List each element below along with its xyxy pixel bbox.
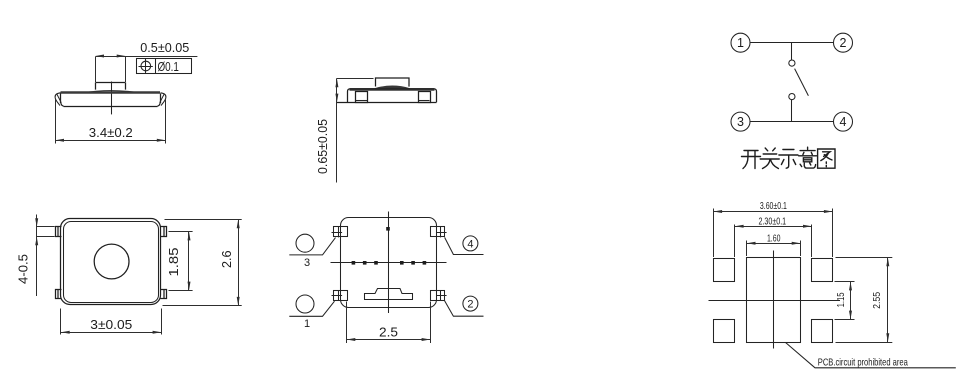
svg-text:2.55: 2.55 <box>871 292 883 309</box>
body top flange (thick) <box>350 88 435 90</box>
contact top <box>789 60 795 66</box>
svg-text:3.60±0.1: 3.60±0.1 <box>760 201 787 212</box>
switch body outline <box>61 94 161 107</box>
dimension line 1.15 <box>849 282 852 320</box>
body outline (end view) <box>337 89 437 103</box>
leader pin 3 <box>289 238 335 255</box>
svg-text:4: 4 <box>467 238 473 250</box>
dimension 4-0.5 text <box>17 254 31 284</box>
leader pin 2 <box>445 301 484 316</box>
terminal tab top-left <box>56 227 62 237</box>
dimension line 2.6 <box>237 220 240 306</box>
dimension line 1.85 <box>188 232 191 291</box>
dimension line 2.5 <box>347 338 431 341</box>
pin 2 circle <box>463 296 478 311</box>
svg-text:Ø0.1: Ø0.1 <box>157 60 179 74</box>
dome (end view) <box>375 86 411 89</box>
dimension line 3.4 <box>55 139 165 142</box>
extension lines 3.4 <box>56 99 166 144</box>
extension lines 2.5 <box>347 302 431 344</box>
extension lines 0.5 <box>96 57 126 83</box>
terminal tab top-right <box>161 227 167 237</box>
svg-text:1.15: 1.15 <box>835 292 847 307</box>
dimension line 1.60 <box>747 242 801 245</box>
cover inner outline (top view) <box>64 222 159 303</box>
pin 2 circle <box>834 33 853 52</box>
pin 4 circle <box>463 236 478 251</box>
svg-text:PCB.circuit prohibited area: PCB.circuit prohibited area <box>818 357 908 369</box>
dimension 0.65±0.05 text <box>316 119 330 174</box>
body outer outline (top view) <box>61 219 161 305</box>
terminal pad top-right <box>431 227 447 238</box>
svg-text:0.5±0.05: 0.5±0.05 <box>140 41 189 55</box>
pad top-right <box>812 259 833 282</box>
switch lever <box>795 69 809 96</box>
extension lines 2.30 <box>735 225 812 258</box>
dimension 0.5±0.05 text <box>140 41 189 55</box>
terminal right (end view) <box>419 92 431 103</box>
pin 4 circle <box>834 112 853 131</box>
dimension line 2.55 <box>886 258 889 343</box>
pad bottom-right <box>812 320 833 343</box>
left bent terminal hook <box>55 93 61 106</box>
body outline (bottom view) <box>341 218 437 308</box>
extension lines 3.60 <box>714 209 833 258</box>
dimension line 0.5 <box>95 55 197 58</box>
pin 3 circle <box>296 234 314 252</box>
dimension line 3±0.05 <box>61 331 162 334</box>
dimension 3±0.05 text <box>90 318 132 332</box>
extension lines 3±0.05 <box>61 309 162 335</box>
terminal tab bottom-left <box>56 290 62 299</box>
svg-text:2: 2 <box>840 36 847 50</box>
center line horizontal <box>331 262 447 264</box>
extension lines 2.6 <box>163 220 242 306</box>
button circle <box>94 244 129 279</box>
dimension 1.60 text <box>767 233 781 244</box>
dimension 2.30±0.1 text <box>758 216 786 227</box>
dimension 2.5 text <box>379 326 398 340</box>
pin 3 label <box>304 257 310 269</box>
pcb center line vertical <box>773 251 775 349</box>
wire bottom 3-4 <box>751 121 834 123</box>
svg-text:2.30±0.1: 2.30±0.1 <box>758 216 786 227</box>
terminal left (end view) <box>356 92 368 103</box>
top reference extension line <box>337 78 374 80</box>
extension lines 4-0.5 <box>37 227 55 237</box>
extension lines 2.55 <box>836 258 893 343</box>
dimension line 2.30 <box>735 225 812 228</box>
dimension 1.85 text <box>167 247 181 276</box>
metal cover top face (thick) <box>61 91 161 94</box>
caption 开关示意图 (drawn strokes) <box>742 147 836 168</box>
pad bottom-left <box>714 320 735 343</box>
svg-text:1: 1 <box>304 318 310 330</box>
svg-text:3±0.05: 3±0.05 <box>90 318 132 332</box>
dimension 3.60±0.1 text <box>760 201 787 212</box>
svg-text:1: 1 <box>737 36 744 50</box>
svg-text:4-0.5: 4-0.5 <box>17 254 31 284</box>
dimension line 4-0.5 <box>35 215 38 297</box>
svg-text:3.4±0.2: 3.4±0.2 <box>89 126 133 140</box>
prohibited area label <box>818 357 908 369</box>
svg-text:0.65±0.05: 0.65±0.05 <box>316 119 330 174</box>
orientation dot top <box>386 227 390 231</box>
locating boss <box>365 289 413 300</box>
stem button (end view) <box>376 78 410 87</box>
svg-text:3: 3 <box>737 115 744 129</box>
leader pin 4 <box>445 237 484 254</box>
leader pin 1 <box>289 301 334 316</box>
terminal pad top-left <box>332 227 348 238</box>
pin 1 circle <box>731 33 750 52</box>
contact dots row <box>352 261 427 265</box>
dome arc <box>81 91 141 93</box>
wire top 1-2 <box>751 42 834 44</box>
prohibited area rectangle <box>747 258 801 343</box>
svg-text:2.5: 2.5 <box>379 326 398 340</box>
contact bottom <box>789 94 795 100</box>
dimension 3.4±0.2 text <box>89 126 133 140</box>
pin 3 circle <box>731 112 750 131</box>
dimension line 3.60 <box>713 210 832 213</box>
center line vertical <box>388 212 390 314</box>
extension lines 1.85 <box>169 232 193 291</box>
terminal pad bottom-right <box>431 291 447 301</box>
svg-text:2.6: 2.6 <box>220 250 234 268</box>
stem button (side view) <box>96 83 126 90</box>
extension lines 1.15 <box>835 282 855 320</box>
dimension 2.55 text <box>871 292 883 309</box>
dimension 1.15 text <box>835 292 847 307</box>
pad top-left <box>714 259 735 282</box>
pcb center line horizontal <box>709 300 841 302</box>
right bent terminal hook <box>160 93 166 106</box>
dimension line 0.65 <box>335 79 338 183</box>
leader prohibited area <box>786 343 956 368</box>
feature control frame position ⌀0.1 <box>137 59 192 74</box>
wire stub bottom <box>791 100 793 122</box>
svg-text:1.60: 1.60 <box>767 233 781 244</box>
extension lines 1.60 <box>747 241 801 257</box>
svg-text:3: 3 <box>304 257 310 269</box>
pin 1 circle <box>296 295 314 313</box>
pin 1 label <box>304 318 310 330</box>
terminal pad bottom-left <box>332 291 348 301</box>
svg-text:1.85: 1.85 <box>167 247 181 276</box>
centerline through button <box>111 82 113 115</box>
wire stub top <box>791 43 793 60</box>
svg-text:4: 4 <box>840 115 847 129</box>
svg-text:2: 2 <box>467 299 473 311</box>
dimension 2.6 text <box>220 250 234 268</box>
terminal tab bottom-right <box>161 290 167 299</box>
